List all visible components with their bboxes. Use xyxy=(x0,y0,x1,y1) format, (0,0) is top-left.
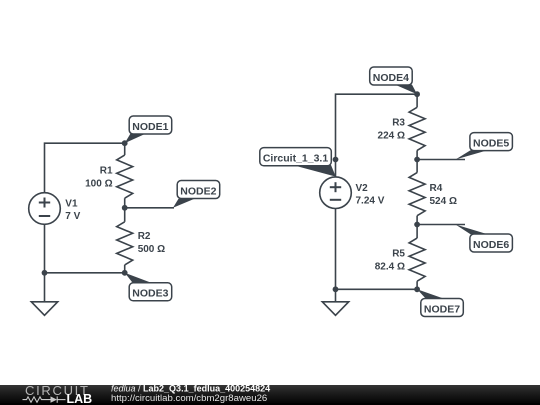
svg-text:R4: R4 xyxy=(430,183,443,194)
svg-text:500 Ω: 500 Ω xyxy=(138,244,165,255)
svg-text:http://circuitlab.com/cbm2gr8a: http://circuitlab.com/cbm2gr8aweu26 xyxy=(111,393,267,404)
svg-text:Circuit_1_3.1: Circuit_1_3.1 xyxy=(263,152,329,164)
svg-text:NODE7: NODE7 xyxy=(424,303,460,315)
svg-text:LAB: LAB xyxy=(67,392,93,405)
svg-text:7 V: 7 V xyxy=(65,211,80,222)
svg-text:R1: R1 xyxy=(100,166,113,177)
svg-text:NODE2: NODE2 xyxy=(180,185,216,197)
svg-text:224 Ω: 224 Ω xyxy=(378,131,405,142)
svg-text:524 Ω: 524 Ω xyxy=(430,196,457,207)
svg-text:NODE4: NODE4 xyxy=(373,72,409,84)
svg-text:fedlua / Lab2_Q3.1_fedlua_4002: fedlua / Lab2_Q3.1_fedlua_400254824 xyxy=(111,383,270,393)
svg-text:NODE5: NODE5 xyxy=(473,137,509,149)
svg-text:R2: R2 xyxy=(138,231,151,242)
svg-text:V2: V2 xyxy=(356,183,369,194)
svg-text:NODE6: NODE6 xyxy=(473,239,509,251)
svg-text:R5: R5 xyxy=(392,248,405,259)
svg-text:R3: R3 xyxy=(392,118,405,129)
svg-text:7.24 V: 7.24 V xyxy=(356,195,385,206)
svg-text:100 Ω: 100 Ω xyxy=(85,179,112,190)
svg-text:V1: V1 xyxy=(65,198,78,209)
svg-text:NODE1: NODE1 xyxy=(132,121,168,133)
svg-text:82.4 Ω: 82.4 Ω xyxy=(375,261,405,272)
svg-text:NODE3: NODE3 xyxy=(132,288,168,300)
